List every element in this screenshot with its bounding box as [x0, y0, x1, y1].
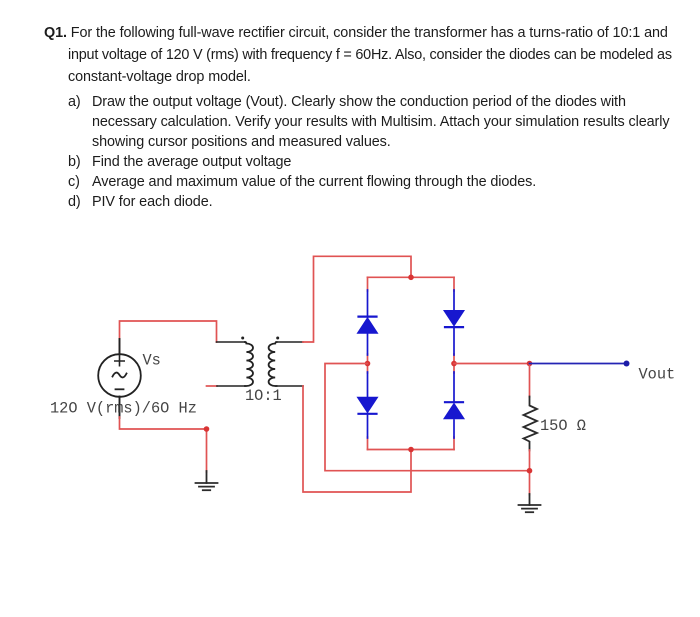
diode D4 lower-right (blue, pointing up)	[444, 372, 464, 438]
wire: left branch mid red stub	[367, 354, 369, 373]
wire: right branch bottom red stub	[453, 437, 455, 450]
item b	[68, 154, 81, 170]
wire: bridge top rail	[368, 276, 455, 278]
node: left mid junction	[365, 361, 371, 367]
svg-text:15O Ω: 15O Ω	[540, 417, 586, 435]
node: bridge bottom junction	[408, 447, 414, 453]
node: source-ground junction	[204, 426, 210, 432]
transformer T1 secondary coil	[269, 342, 277, 386]
wire: source bottom black stub	[119, 397, 121, 419]
transformer T1 primary bottom lead	[217, 385, 246, 387]
wire: right mid to resistor top	[454, 363, 530, 365]
wire: resistor bottom red	[529, 450, 531, 495]
wire: Vout blue wire	[530, 363, 627, 365]
transformer T1 secondary phase dot	[276, 337, 279, 340]
transformer T1 secondary bottom lead	[276, 385, 303, 387]
wire: source top loop	[120, 321, 217, 354]
plus mark	[115, 356, 124, 365]
node: Vout terminal dot	[624, 361, 630, 367]
question paragraph line 1	[44, 25, 668, 41]
wire: secondary top to bridge top	[303, 256, 411, 342]
diode D2 upper-right (blue, pointing down)	[444, 290, 464, 355]
diode D3 lower-left (blue, pointing down)	[357, 372, 377, 438]
node: resistor top junction	[527, 361, 533, 367]
wire: right branch mid red stub	[453, 354, 455, 373]
wire: primary bottom red	[207, 385, 218, 387]
wire: bridge bottom rail	[368, 449, 455, 451]
wire: secondary bottom to bridge bottom	[303, 386, 411, 492]
item c	[68, 174, 80, 190]
diode D1 upper-left (blue, pointing up)	[357, 290, 377, 355]
AC source V1 circle	[98, 354, 141, 397]
transformer T1 primary top lead	[217, 341, 246, 343]
wire: resistor top red	[529, 364, 531, 398]
wire: source top black stub	[119, 339, 121, 355]
item a line 3	[92, 134, 391, 150]
question paragraph line 3	[68, 69, 251, 85]
wire: right branch top red stub	[453, 277, 455, 291]
svg-text:Vs: Vs	[143, 352, 161, 370]
svg-text:1O:1: 1O:1	[245, 387, 282, 405]
item a line 1	[68, 94, 81, 110]
svg-text:12O V(rms)/6O Hz: 12O V(rms)/6O Hz	[50, 400, 197, 418]
ground 2	[519, 494, 541, 512]
question paragraph line 2	[68, 47, 672, 63]
node: right mid junction	[451, 361, 457, 367]
transformer T1 secondary top lead	[276, 341, 303, 343]
node: resistor bottom junction	[527, 468, 533, 474]
item a line 2	[92, 114, 669, 130]
transformer T1 primary phase dot	[241, 337, 244, 340]
item d	[68, 194, 81, 210]
wire: left branch top red stub	[367, 277, 369, 291]
wire: source bottom rail	[120, 417, 207, 472]
wire: left branch bottom red stub	[367, 437, 369, 450]
ground 1	[196, 471, 218, 490]
sine mark	[113, 373, 127, 378]
wire: left mid to resistor bottom	[325, 364, 530, 471]
node: bridge top junction	[408, 275, 414, 281]
transformer T1 primary coil	[245, 342, 253, 386]
resistor R1 150 ohm	[524, 397, 538, 451]
minus mark	[116, 388, 124, 390]
svg-text:Vout: Vout	[639, 366, 676, 384]
